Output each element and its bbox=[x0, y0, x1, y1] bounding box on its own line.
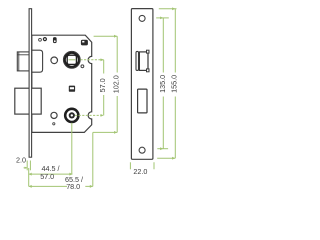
78.0 label with white bg bbox=[67, 183, 85, 190]
44.5/57.0 dimension line bbox=[29, 173, 73, 175]
135.0 top arrow line bbox=[156, 17, 169, 19]
lock faceplate (side view) bbox=[29, 9, 32, 158]
135.0 bottom arrow line bbox=[157, 148, 168, 150]
case depth extension bbox=[92, 132, 94, 186]
latch housing inside case bbox=[32, 50, 43, 72]
small dark circle bbox=[43, 38, 46, 41]
22.0 ticks bbox=[129, 162, 131, 169]
tiny circle below bbox=[53, 123, 55, 125]
135.0 vertical bbox=[162, 18, 164, 149]
65.5/78.0 dimension line bbox=[29, 185, 93, 187]
green arrowheads bbox=[25, 7, 176, 188]
deadbolt aperture bbox=[138, 89, 147, 113]
small capsule part bbox=[53, 38, 56, 43]
mid slotted part bbox=[69, 86, 75, 92]
svg-text:57.0: 57.0 bbox=[40, 172, 54, 181]
latch bevel lines bbox=[18, 52, 20, 71]
upper hub (spindle follower) bbox=[63, 51, 80, 68]
latch bolt bbox=[17, 52, 29, 71]
hub centre extension upper bbox=[69, 59, 76, 61]
hub centre extension lower (dashed) bbox=[75, 114, 104, 116]
svg-text:22.0: 22.0 bbox=[133, 167, 147, 176]
svg-text:102.0: 102.0 bbox=[112, 75, 121, 93]
102.0 top extension bbox=[94, 35, 118, 37]
svg-text:135.0: 135.0 bbox=[158, 75, 167, 93]
lock case body bbox=[32, 35, 92, 132]
top screw hole bbox=[139, 15, 145, 21]
faceplate front extension bbox=[28, 168, 30, 186]
screw hole top-left bbox=[39, 38, 42, 41]
svg-text:57.0: 57.0 bbox=[98, 78, 107, 92]
right faceplate strip bbox=[131, 9, 153, 160]
lower hub (thumbturn follower) bbox=[65, 109, 78, 122]
155.0 bottom line bbox=[157, 157, 175, 159]
green dimension lines bbox=[24, 9, 177, 187]
svg-text:2.0: 2.0 bbox=[16, 156, 26, 165]
small circle right of upper hub bbox=[81, 65, 84, 68]
svg-text:78.0: 78.0 bbox=[66, 182, 80, 191]
dimension texts bbox=[16, 75, 179, 191]
57.0 vertical bbox=[103, 60, 105, 116]
155.0 top line bbox=[159, 8, 177, 10]
102.0 bottom extension bbox=[93, 131, 117, 133]
155.0 vertical bbox=[174, 9, 176, 158]
latch aperture main bbox=[139, 52, 148, 71]
2.0 ticks bbox=[26, 161, 28, 171]
latch aperture bottom tab bbox=[147, 69, 150, 72]
top-right rivet bbox=[81, 40, 87, 45]
deadbolt bbox=[15, 88, 41, 114]
bottom screw hole bbox=[139, 147, 145, 153]
white gaps for vertical dim texts bbox=[99, 74, 107, 96]
circle left of lower hub bbox=[51, 112, 57, 118]
svg-text:155.0: 155.0 bbox=[170, 75, 179, 93]
latch aperture: left rounded bar bbox=[136, 51, 139, 70]
backset extension from lower hub bbox=[71, 123, 73, 174]
circle left of upper hub bbox=[51, 57, 58, 64]
latch aperture top tab bbox=[147, 50, 150, 53]
102.0 vertical bbox=[116, 36, 118, 132]
